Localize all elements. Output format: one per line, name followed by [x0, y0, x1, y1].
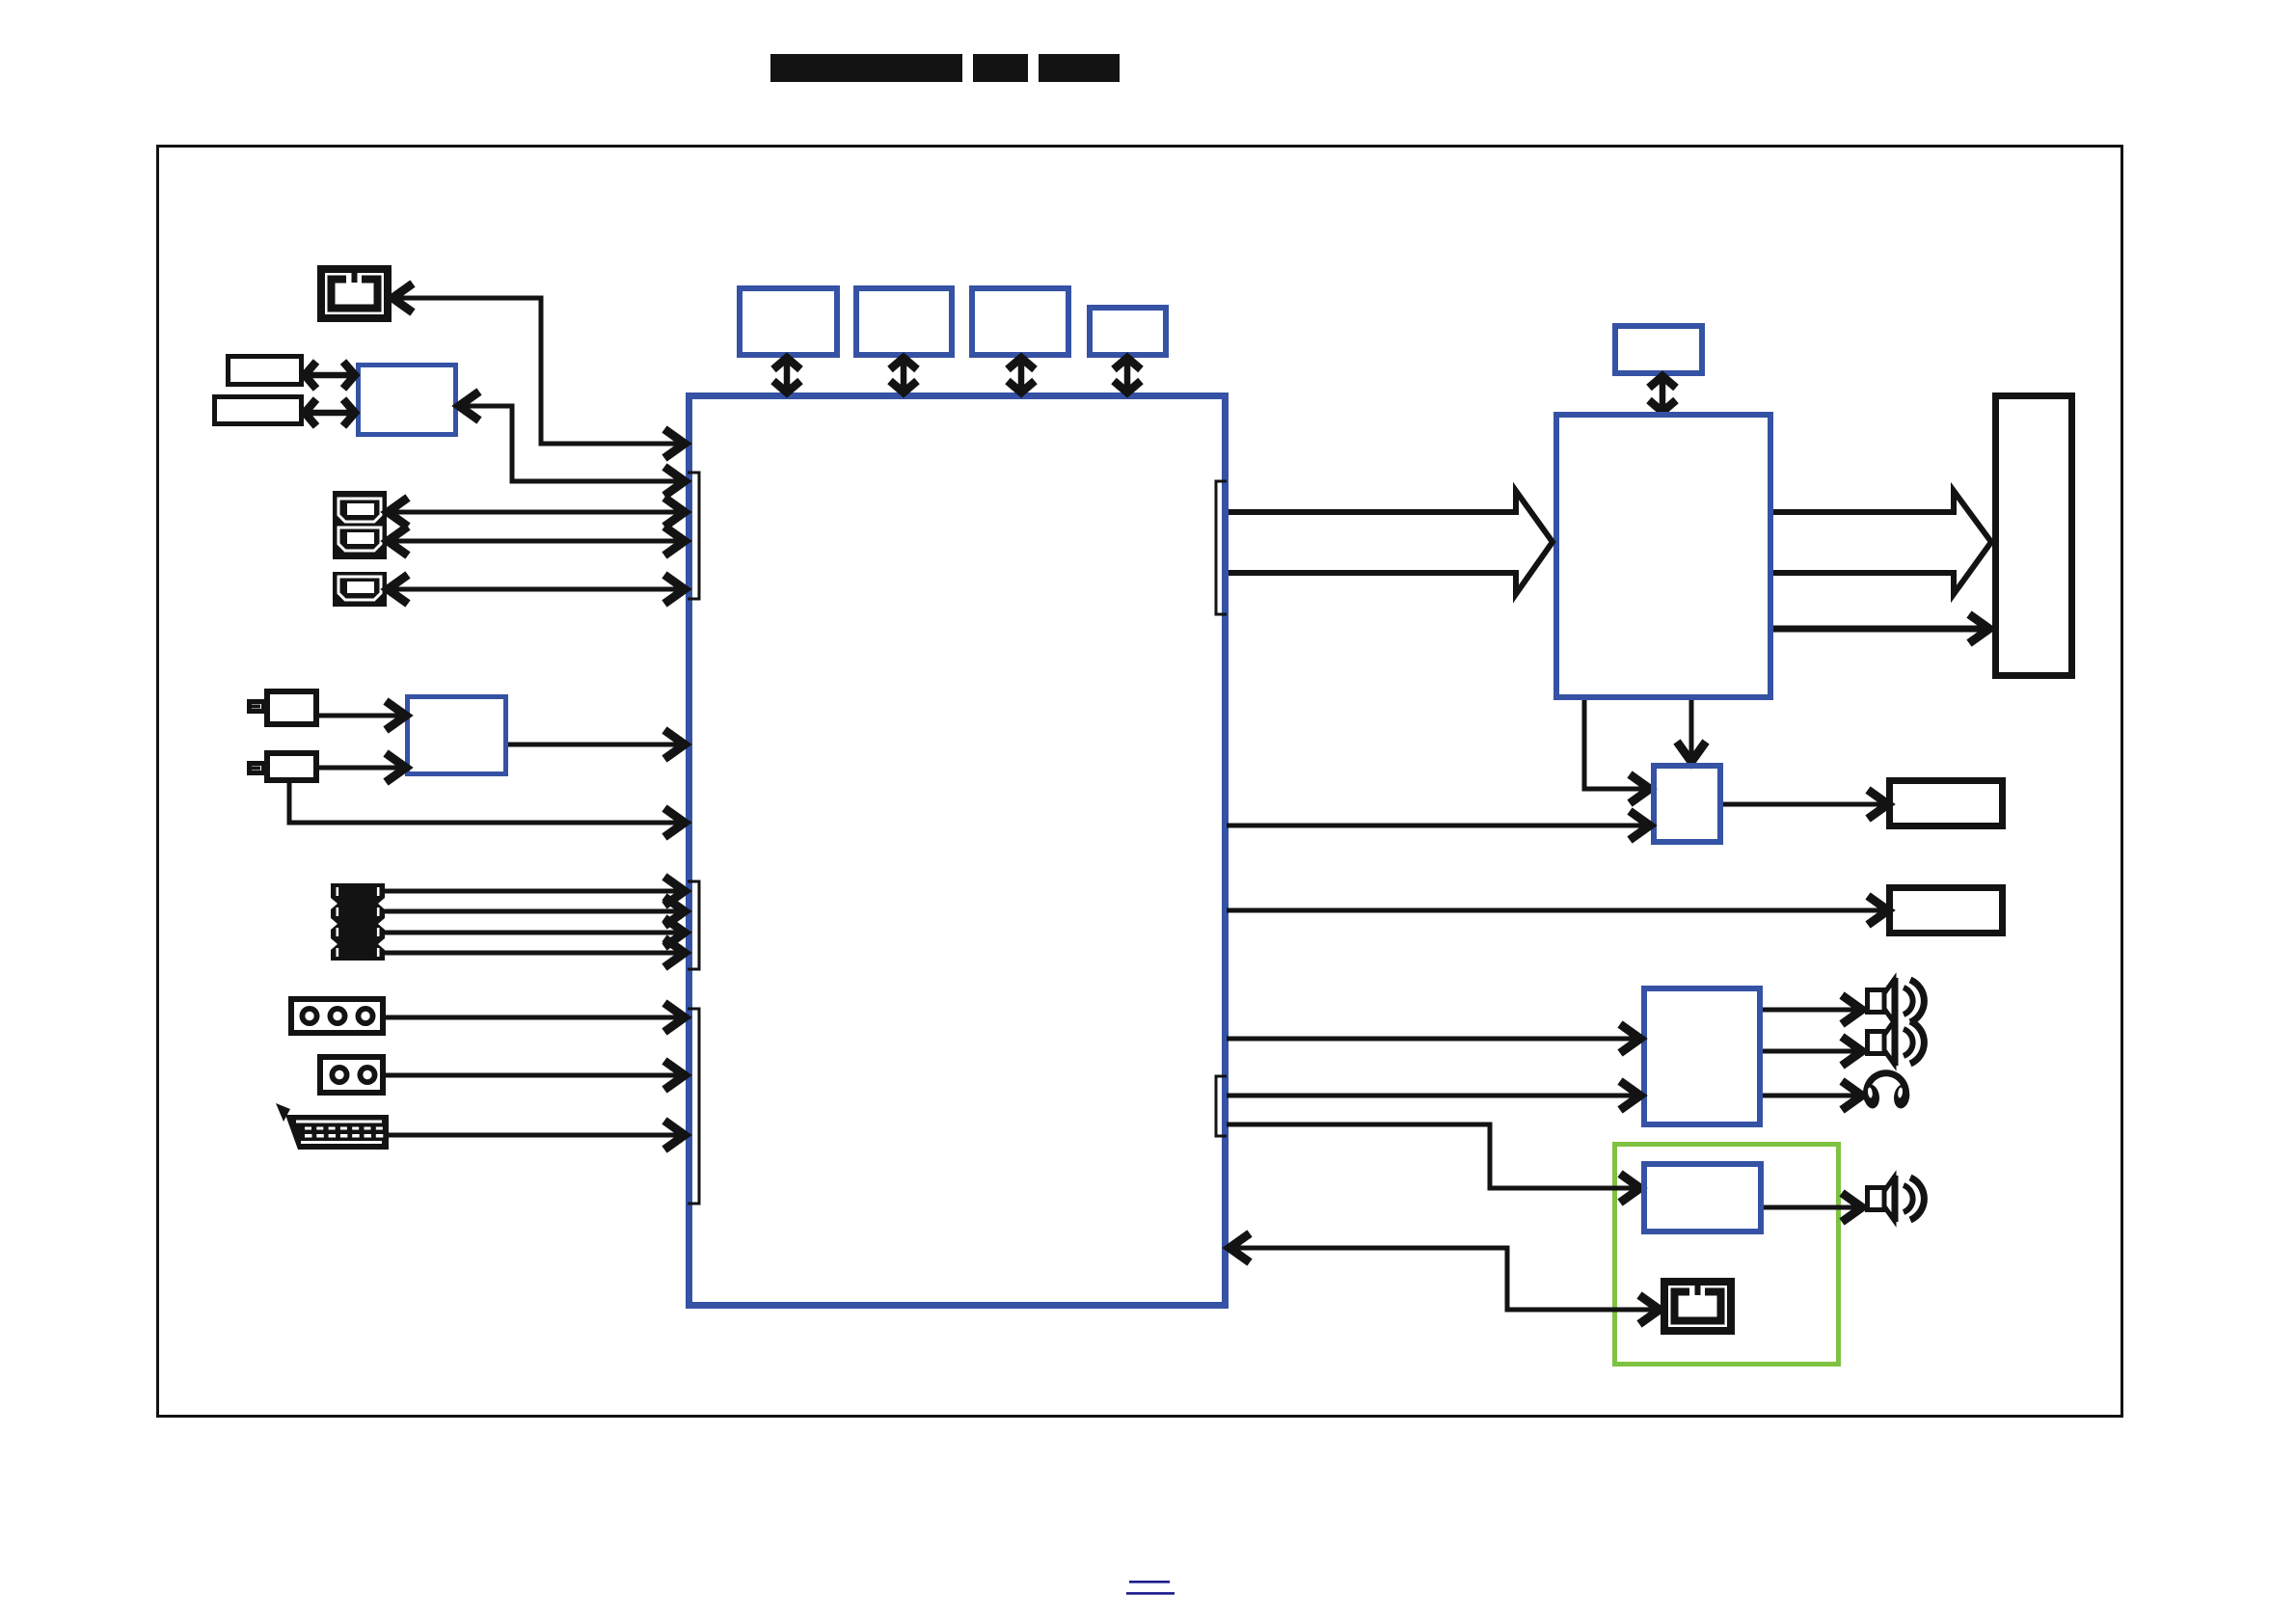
S2-U2 double arrow [303, 399, 357, 426]
title bar 1 (redacted text) [770, 54, 962, 82]
HDMI connector J2 (dual) [333, 491, 387, 559]
SoC left port bracket B2 [688, 881, 699, 969]
supply box [1890, 888, 2003, 934]
SoC left port bracket B1 [688, 473, 699, 599]
T-CON box U5 [1556, 415, 1770, 697]
headphone icon J10 [1862, 1073, 1911, 1110]
wire J4 to tuner [319, 701, 406, 730]
DDR box U4 [1615, 326, 1702, 373]
memory box M1 [740, 288, 837, 355]
component video connector J7 [291, 999, 383, 1033]
U4-TCON double arrow [1649, 374, 1676, 414]
wire HDMI3 to SoC [388, 575, 685, 604]
wire HDMI2 to SoC [388, 527, 685, 555]
keypad box S1 [229, 357, 302, 385]
IR loop icon J1 [321, 269, 388, 318]
wire SoC to sub amp [1227, 1124, 1640, 1203]
LCD panel [1996, 396, 2072, 676]
subwoofer amp box U8 [1644, 1164, 1761, 1232]
IF demod box U2 [359, 365, 456, 435]
S1-U2 double arrow [303, 362, 357, 389]
AV pin header J6 [331, 883, 385, 961]
wire J5 to tuner [319, 753, 406, 782]
wire J5 to SoC [289, 783, 685, 837]
memory box M2 [856, 288, 952, 355]
green subwoofer group box [1615, 1145, 1839, 1365]
wire T-CON down to LED driver [1677, 700, 1706, 762]
wire SCART to SoC [389, 1121, 685, 1150]
LED driver box U6 [1654, 766, 1720, 842]
wire SoC to supply box [1227, 896, 1888, 925]
wire green box to SoC return [1229, 1233, 1660, 1324]
bus M2-SoC double arrow [890, 356, 917, 394]
audio amp box U7 [1644, 988, 1760, 1124]
bus M4-SoC double arrow [1114, 356, 1141, 394]
antenna connector J4 [250, 691, 317, 724]
wire tuner to SoC [508, 730, 685, 759]
wire SoC to amp in2 [1227, 1081, 1640, 1110]
SoC right audio bracket B5 [1216, 1076, 1227, 1136]
bus M3-SoC double arrow [1008, 356, 1035, 394]
wire SoC to IR icon [392, 284, 685, 458]
memory box M3 [972, 288, 1068, 355]
SCART connector J9 [276, 1103, 389, 1150]
title bar 3 (redacted text) [1039, 54, 1120, 82]
page border frame [158, 147, 2122, 1417]
wire J8 to SoC [386, 1061, 685, 1090]
title bar 2 (redacted text) [973, 54, 1028, 82]
IR loop icon J11 [1664, 1282, 1731, 1331]
wire amp to speaker L [1763, 995, 1862, 1024]
wire T-CON to LED driver [1584, 700, 1650, 803]
wire T-CON to panel aux [1773, 614, 1989, 643]
LVDS bus arrow T-CON to panel [1773, 491, 1991, 594]
HDMI connector J3 [333, 572, 387, 607]
wire AV1 to SoC [385, 877, 685, 906]
AV cinch connector J8 [320, 1057, 383, 1093]
backlight box [1890, 781, 2003, 826]
speaker icon LS1 [1868, 978, 1925, 1024]
tuner box U3 [408, 697, 506, 774]
memory box M4 [1090, 308, 1166, 355]
wire J7 to SoC [386, 1003, 685, 1032]
wire LED driver to backlight [1723, 790, 1888, 819]
wire SoC to LED driver [1227, 811, 1650, 840]
wire sub amp to speaker [1764, 1193, 1862, 1222]
wire SoC to U2 [459, 392, 685, 496]
keypad box S2 [215, 397, 302, 424]
wire AV4 to SoC [385, 938, 685, 967]
LVDS bus arrow SoC to T-CON [1229, 491, 1553, 594]
SoC right bus bracket B4 [1216, 481, 1227, 614]
wire AV3 to SoC [385, 918, 685, 947]
SoC left port bracket B3 [688, 1009, 699, 1204]
antenna connector J5 [250, 753, 317, 780]
bus M1-SoC double arrow [773, 356, 800, 394]
speaker icon LS2 [1868, 1019, 1925, 1066]
wire amp to headphone [1763, 1081, 1862, 1110]
main SoC block U1 [689, 396, 1226, 1306]
page link underline 2 [1126, 1592, 1175, 1595]
speaker icon LS3 [1868, 1176, 1925, 1222]
page link underline 1 [1129, 1581, 1170, 1583]
wire HDMI1 to SoC [388, 498, 685, 527]
wire amp to speaker R [1763, 1037, 1862, 1066]
wire SoC to amp in1 [1227, 1024, 1640, 1053]
wire AV2 to SoC [385, 897, 685, 926]
